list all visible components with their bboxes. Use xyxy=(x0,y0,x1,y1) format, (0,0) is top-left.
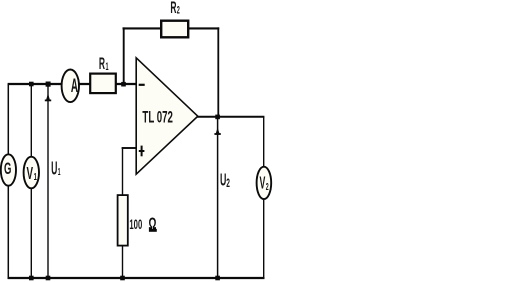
wire: non-inverting input horizontal xyxy=(122,147,137,149)
wire: bottom rail xyxy=(8,277,265,279)
svg-text:2: 2 xyxy=(226,177,230,191)
resistor R1 body xyxy=(90,74,116,94)
svg-text:2: 2 xyxy=(266,180,269,193)
label U1 node xyxy=(51,159,57,179)
svg-text:R: R xyxy=(99,54,105,73)
voltmeter V2 xyxy=(257,167,272,199)
svg-text:100: 100 xyxy=(129,218,142,233)
voltmeter V1 label xyxy=(27,164,34,184)
op-amp inverting input minus sign xyxy=(139,84,145,86)
wire: voltmeter V2 branch vertical xyxy=(263,117,265,279)
junction on output wire at U2 branch xyxy=(215,115,220,120)
label R1 xyxy=(99,54,105,73)
svg-text:G: G xyxy=(4,159,11,178)
svg-text:U: U xyxy=(220,169,226,189)
ammeter label A xyxy=(71,76,78,98)
ammeter A xyxy=(62,70,79,103)
wire: U1 measuring branch vertical xyxy=(47,84,49,279)
junction on bottom rail at U2 branch xyxy=(215,276,220,281)
op-amp U1 triangle TL072 xyxy=(136,58,198,174)
op-amp label TL 072 xyxy=(142,108,173,127)
wire: voltmeter V1 branch vertical xyxy=(30,84,32,279)
wire: 100 ohm branch vertical xyxy=(122,148,124,279)
junction on input wire at feedback node xyxy=(121,82,126,87)
svg-text:1: 1 xyxy=(106,60,109,73)
resistor R2 body xyxy=(161,21,188,38)
svg-text:2: 2 xyxy=(177,4,180,17)
voltmeter V1 xyxy=(24,157,39,189)
wire: output horizontal xyxy=(197,116,264,118)
label 100 ohm value xyxy=(129,218,142,233)
generator G xyxy=(1,154,16,185)
voltmeter V2 label xyxy=(260,172,266,192)
svg-text:V: V xyxy=(260,172,266,192)
resistor 100 ohm body xyxy=(118,195,128,246)
junction on bottom rail at V1 branch xyxy=(29,276,34,281)
wire: U2 vertical (output junction to bottom rail) xyxy=(217,117,219,279)
wire: top feedback horizontal xyxy=(123,27,220,29)
wire: feedback right vertical down to output xyxy=(217,27,219,116)
label R2 xyxy=(170,0,176,17)
junction on input wire at U1 branch xyxy=(46,82,51,87)
label U2 node xyxy=(220,169,226,189)
op-amp non-inverting input plus sign xyxy=(139,146,145,157)
arrow of voltage U2 (points up) xyxy=(214,127,220,135)
svg-text:TL 072: TL 072 xyxy=(142,108,173,127)
wire: generator branch vertical xyxy=(7,84,9,279)
wire: input horizontal to inverting input xyxy=(8,83,137,85)
junction on bottom rail at 100 ohm branch xyxy=(120,276,125,281)
svg-text:V: V xyxy=(27,164,34,184)
arrow of voltage U1 (points up) xyxy=(45,93,51,101)
svg-text:1: 1 xyxy=(58,166,61,178)
junction on input wire at V1 branch xyxy=(29,82,34,87)
svg-text:R: R xyxy=(170,0,176,17)
generator label G xyxy=(4,159,11,178)
wire: feedback left vertical xyxy=(123,27,125,84)
junction on bottom rail at U1 branch xyxy=(46,276,51,281)
svg-text:A: A xyxy=(71,76,78,98)
svg-text:U: U xyxy=(51,159,57,179)
svg-text:1: 1 xyxy=(34,170,37,182)
